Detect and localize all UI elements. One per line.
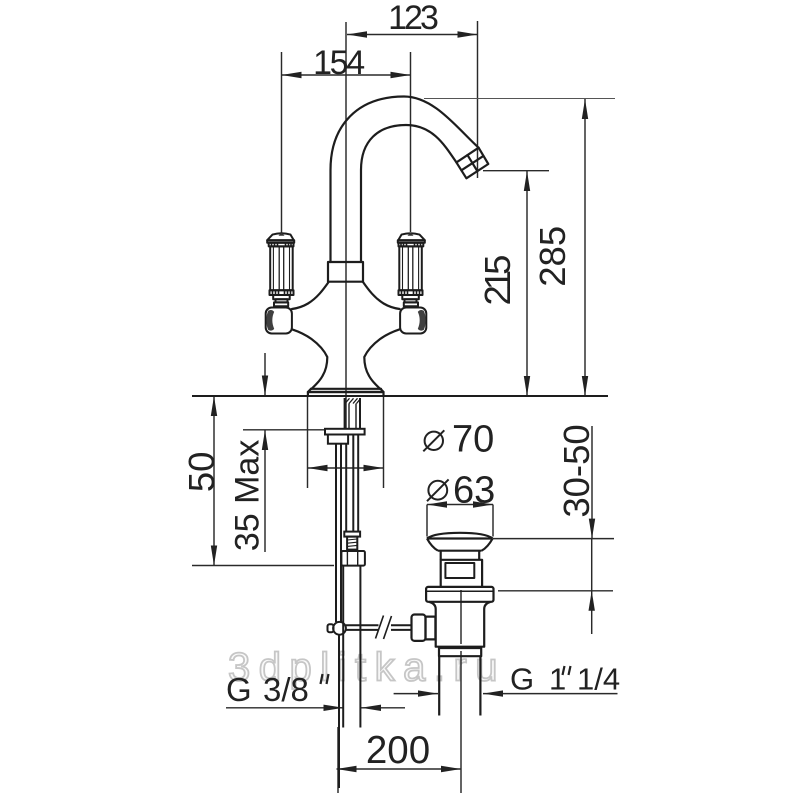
dimension line G3/8 right part (361, 707, 405, 709)
drain cap sides (427, 539, 493, 551)
arrow 35max down (262, 376, 268, 396)
dimension line G3/8 left part (226, 707, 344, 709)
arrow G1-1/4 left (483, 690, 503, 696)
washer (325, 429, 365, 435)
drain neck (440, 551, 442, 560)
dimension line 50 vertical (213, 396, 215, 566)
fitting ring (344, 532, 360, 537)
svg-text:50: 50 (181, 451, 222, 492)
arrow 285 bottom (582, 376, 588, 396)
svg-text:215: 215 (477, 256, 518, 306)
arrow G3/8 right (324, 705, 344, 711)
svg-text:63: 63 (453, 470, 495, 512)
arrow 123 right (458, 31, 478, 37)
spout nozzle aerator (456, 148, 488, 179)
arrow 154 right (391, 72, 411, 78)
arrow 215 bottom (524, 376, 530, 396)
svg-text:35 Max: 35 Max (228, 440, 266, 552)
spout outer curve (331, 97, 479, 263)
svg-text:3/8: 3/8 (263, 671, 309, 708)
reference line outlet bottom (483, 170, 549, 172)
arrow G1-1/4 right (418, 690, 438, 696)
DIMENSION TEXTS (181, 0, 620, 772)
reference line 35max bottom (243, 429, 325, 431)
extension line 200 right (drain centerline lower) (460, 651, 462, 793)
arrow 215 top (524, 171, 530, 191)
svg-text:1: 1 (549, 662, 565, 697)
dimension line 215 vertical (526, 171, 528, 396)
fitting neck threaded (347, 537, 357, 550)
extension line dia70 left (307, 396, 309, 488)
dimension line 123 (347, 34, 478, 36)
supply pipe upper (345, 444, 347, 533)
arrow dia63 left (427, 501, 447, 507)
reference line spout apex (424, 98, 615, 100)
extension line dia63 right (492, 505, 494, 537)
centerline right handle (154 right extension) (410, 52, 412, 232)
arrow 200 right (441, 766, 461, 772)
dimension line dia63 (427, 504, 493, 506)
centerline left handle (154 left extension) (281, 52, 283, 233)
extension line spout outlet (123 right) (477, 21, 479, 178)
dimension line 35max upper segment (264, 353, 266, 395)
dimension line 154 (282, 74, 411, 76)
collar (328, 262, 363, 282)
break symbol (376, 616, 384, 639)
threaded stud (344, 398, 346, 429)
dimension line 30-50 lower segment (591, 539, 593, 591)
dimension line 200 (337, 768, 462, 770)
svg-text:70: 70 (452, 419, 494, 461)
nut (328, 435, 348, 444)
reference line drain cap top (493, 538, 614, 540)
dimension line 30-50 vertical (591, 426, 593, 538)
svg-text:30-50: 30-50 (556, 424, 597, 517)
arrow 30-50 bottom (589, 519, 595, 539)
rod ball joint (333, 622, 346, 635)
dimension tail below flange ref (591, 591, 593, 634)
dimension line G1-1/4 left part (394, 693, 438, 695)
label dia70 symbol (423, 430, 444, 451)
stud thread hatch (345, 398, 360, 403)
reference line drain flange top (498, 590, 613, 592)
dimension line 35max lower segment (264, 430, 266, 552)
horizontal rod right segment (391, 624, 412, 626)
body shoulder right (363, 282, 400, 309)
bell bottom (311, 388, 381, 390)
stud inner rod (348, 404, 350, 429)
arrow dia70 left (308, 465, 328, 471)
svg-text:200: 200 (366, 729, 430, 772)
arrows (211, 31, 595, 772)
body lower left (292, 329, 327, 389)
dimension line G1-1/4 right part (483, 693, 618, 695)
arrow 154 left (282, 72, 302, 78)
right handle (mirror) (398, 232, 427, 333)
nozzle mid line short (468, 155, 478, 171)
arrow 50 bottom (211, 546, 217, 566)
extension line dia63 left (426, 505, 428, 537)
arrow dia63 right (473, 501, 493, 507)
drain flange (426, 587, 493, 602)
svg-text:1/4: 1/4 (577, 662, 620, 697)
overflow window (445, 563, 474, 578)
fitting hex nut (341, 551, 365, 566)
arrow 200 left (337, 766, 357, 772)
arrow dia70 right (364, 465, 384, 471)
svg-text:123: 123 (388, 0, 438, 37)
arrow 123 left (347, 31, 367, 37)
extension line 200 left (rod lower) (337, 727, 339, 793)
left handle (266, 232, 295, 333)
svg-text:G: G (510, 662, 534, 697)
rod lower (338, 635, 340, 788)
side port nut (412, 615, 426, 641)
arrow flange ref up (589, 591, 595, 611)
tailpipe (438, 656, 440, 715)
arrow G3/8 left (361, 705, 381, 711)
drain centerline in flange (460, 590, 462, 644)
arrow 285 top (582, 99, 588, 119)
supply pipe lower (342, 566, 344, 728)
svg-text:285: 285 (532, 226, 573, 287)
centerline main (123 left extension) (345, 22, 347, 428)
label dia63 symbol (427, 479, 449, 501)
side port collar (426, 617, 436, 640)
arrow 35max up (262, 430, 268, 450)
dimension line 285 vertical (584, 99, 586, 396)
spout inner curve (361, 125, 456, 262)
drain body (429, 602, 491, 647)
horizontal rod left segment (346, 624, 379, 626)
body shoulder left (292, 282, 329, 309)
drain cap dome (427, 533, 493, 539)
reference line 50 bottom (192, 565, 334, 567)
dimension line dia70 (308, 467, 384, 469)
extension line dia70 right (383, 396, 385, 488)
deck line (192, 395, 608, 397)
svg-text:G: G (226, 671, 252, 708)
pop-up rod upper (335, 444, 337, 622)
overflow body (441, 560, 482, 587)
base plate (308, 389, 384, 396)
svg-text:154: 154 (313, 44, 364, 82)
nozzle mid line long (461, 156, 483, 170)
arrow 50 top (211, 396, 217, 416)
body lower right (364, 329, 399, 389)
bottom ring (439, 648, 481, 656)
